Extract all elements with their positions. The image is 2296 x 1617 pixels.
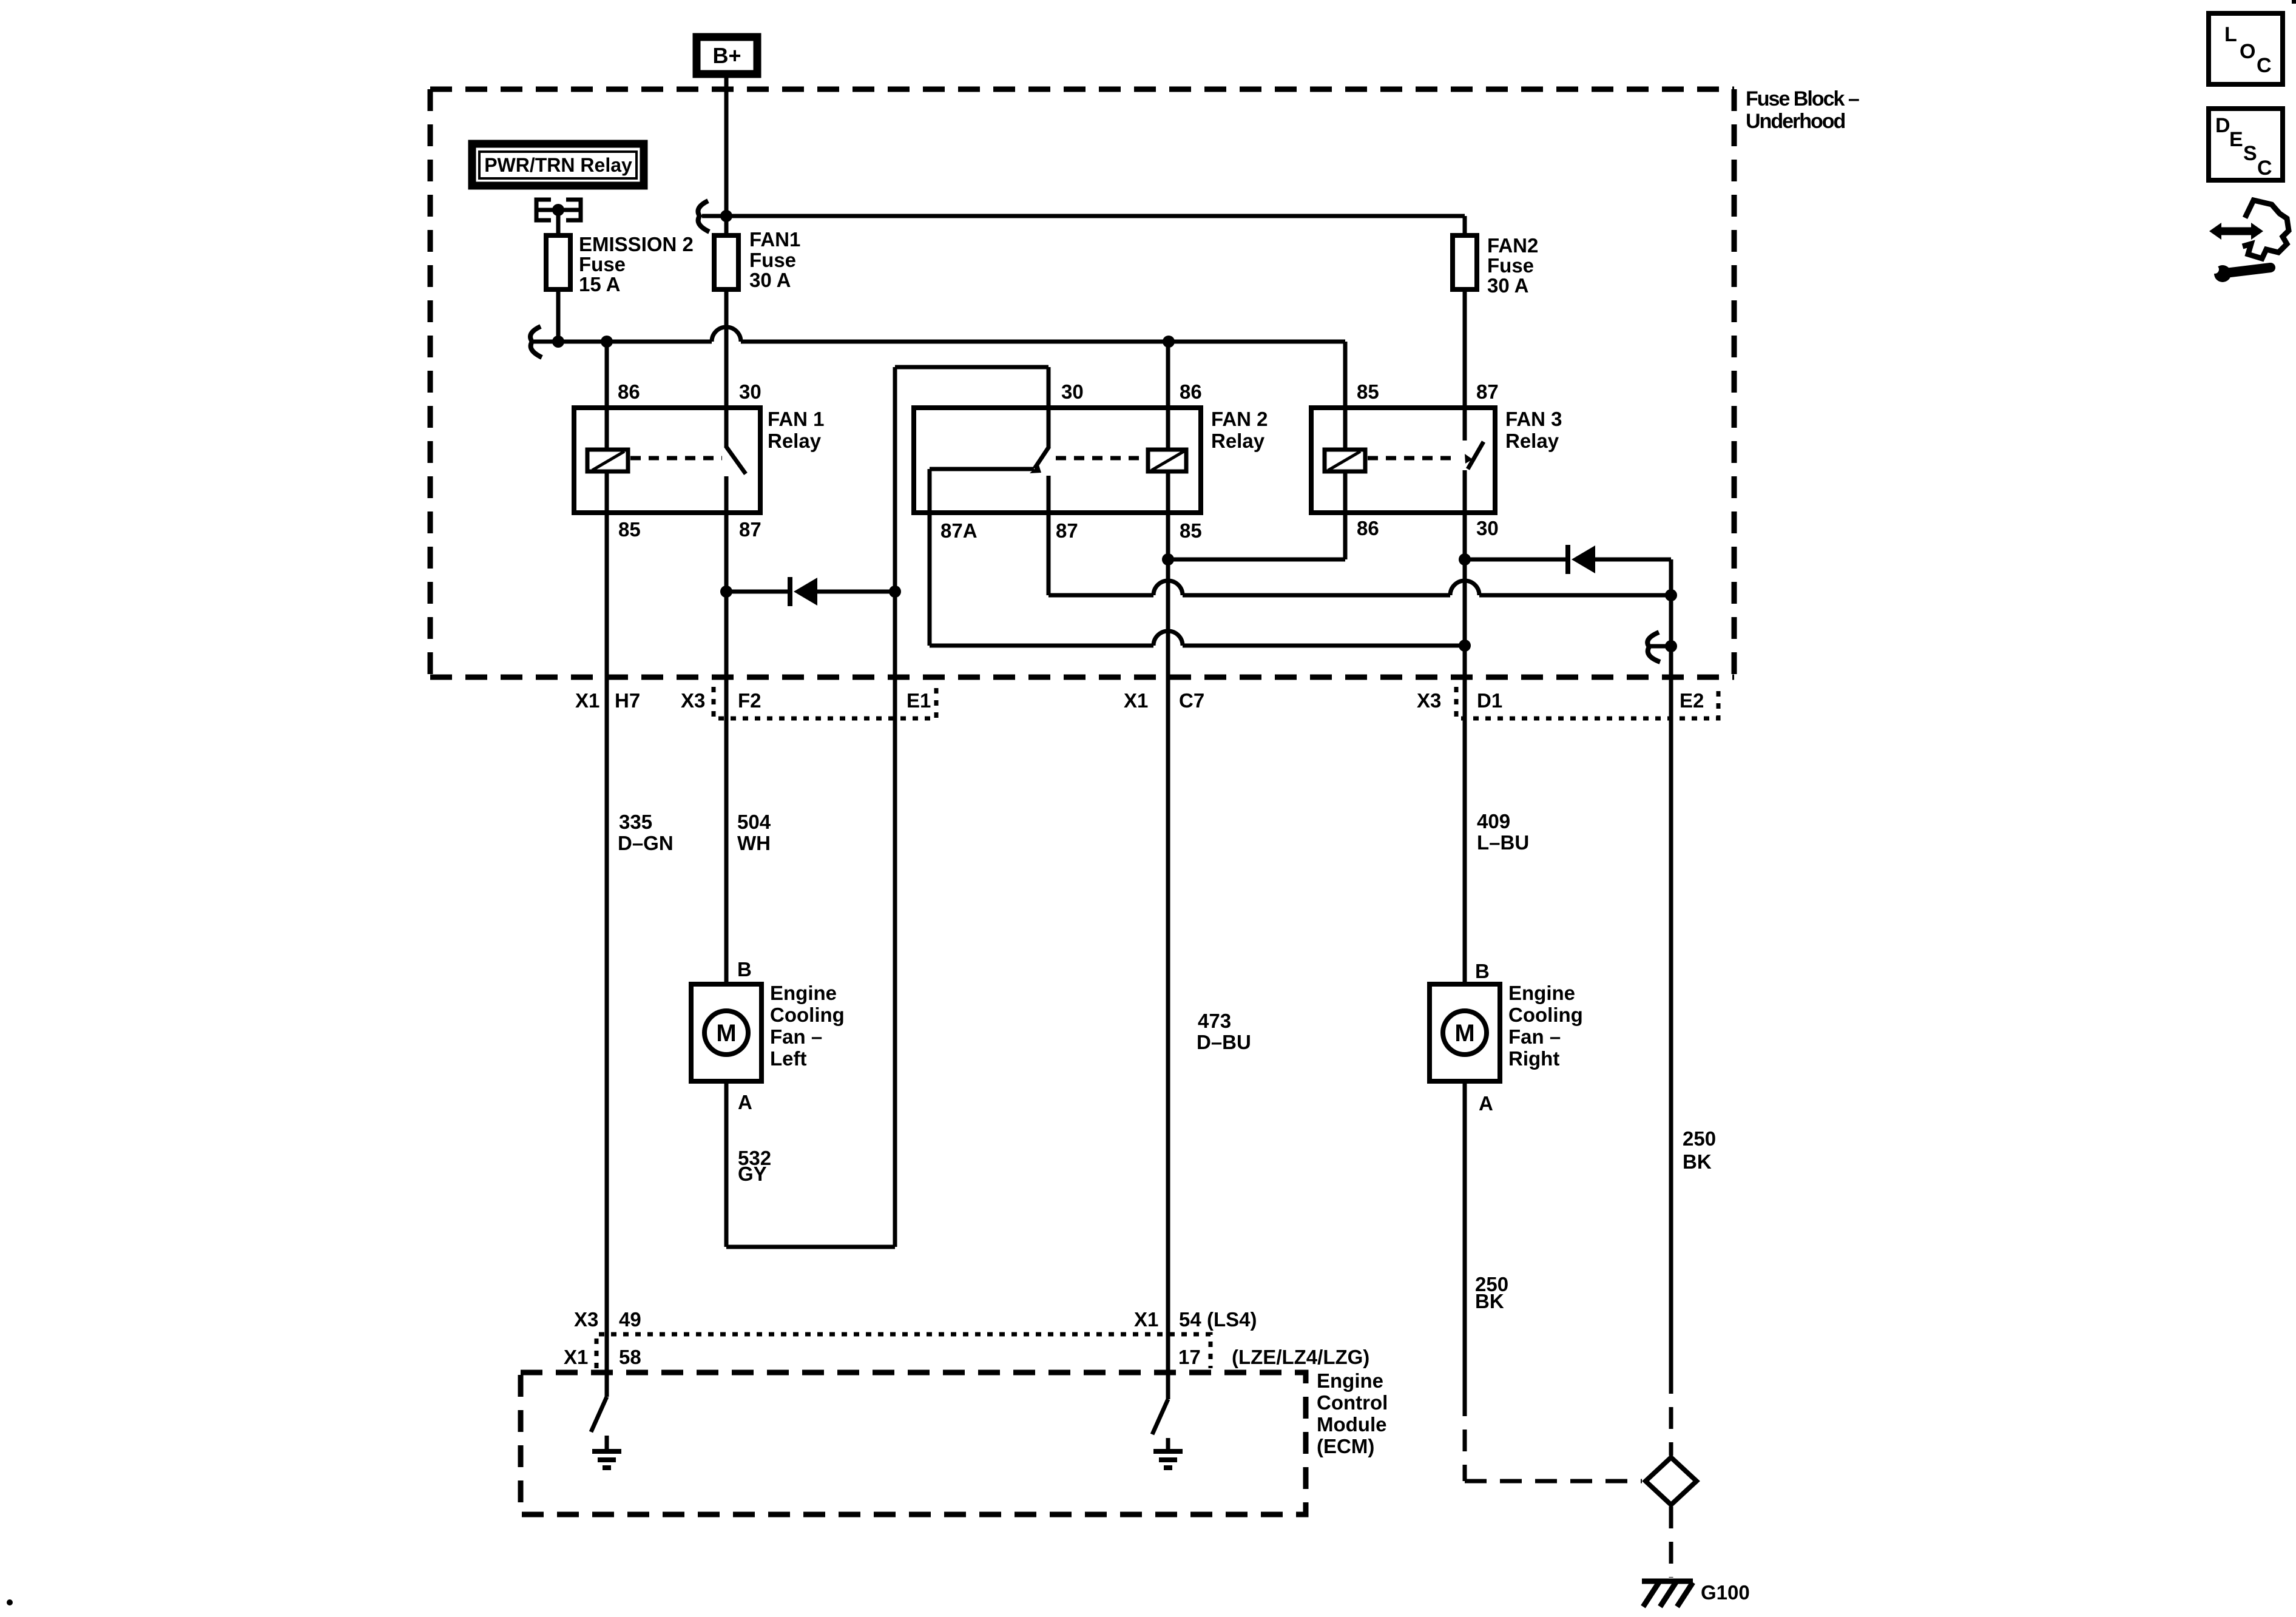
svg-text:D–GN: D–GN: [618, 832, 674, 854]
svg-text:86: 86: [1357, 517, 1379, 539]
svg-text:E1: E1: [907, 689, 931, 712]
DESC legend box: [2209, 109, 2283, 180]
diode between FAN3 30 wire and E2 wire: [1465, 545, 1671, 595]
svg-text:335: 335: [619, 811, 652, 833]
svg-text:M: M: [716, 1020, 736, 1047]
svg-text:X1: X1: [564, 1346, 588, 1368]
relay FAN 3 switch: [1465, 408, 1484, 513]
svg-text:85: 85: [618, 518, 641, 541]
svg-text:FAN 3: FAN 3: [1505, 408, 1562, 430]
svg-text:X3: X3: [574, 1308, 598, 1331]
svg-text:Fuse Block –: Fuse Block –: [1746, 87, 1859, 110]
svg-text:O: O: [2240, 40, 2255, 63]
B+ battery terminal: [697, 37, 757, 74]
wire left motor A to loop with label 532 GY: [726, 1081, 895, 1247]
svg-text:B: B: [737, 958, 752, 981]
svg-text:X1: X1: [1134, 1308, 1158, 1331]
svg-text:FAN 1: FAN 1: [768, 408, 825, 430]
node bus FAN2 relay 86 junction: [1163, 336, 1175, 348]
wire FAN2 relay 87A to FAN3 relay 30: [930, 513, 1465, 646]
fuse FAN2 30A: [1453, 234, 1538, 297]
svg-text:C7: C7: [1179, 689, 1204, 712]
svg-text:86: 86: [618, 380, 640, 403]
svg-text:Engine: Engine: [1508, 982, 1575, 1004]
svg-text:S: S: [2243, 142, 2257, 165]
node B+ junction to FAN2 fuse feed: [720, 210, 732, 222]
svg-text:Right: Right: [1508, 1047, 1559, 1070]
svg-text:(ECM): (ECM): [1317, 1435, 1374, 1457]
wire label 409 L-BU: [1477, 810, 1529, 854]
wire FAN2 fuse down to FAN 3 relay pin 87: [1463, 289, 1467, 408]
relay FAN 1: [574, 380, 825, 541]
svg-text:30: 30: [1061, 380, 1084, 403]
svg-text:BK: BK: [1683, 1150, 1712, 1173]
svg-text:X1: X1: [1124, 689, 1148, 712]
svg-text:30: 30: [739, 380, 761, 403]
svg-text:A: A: [738, 1091, 752, 1113]
wire FAN1 fuse down to FAN 1 relay pin 30: [724, 289, 729, 408]
LOC legend box: [2209, 13, 2283, 84]
svg-text:Module: Module: [1317, 1413, 1386, 1436]
ECM switch to ground right: [1152, 1399, 1183, 1468]
wire FAN1 relay 87 down to left fan motor: [724, 513, 729, 984]
wire connector to EMISSION 2 fuse: [556, 210, 561, 235]
node bus FAN1 relay 86 junction: [601, 336, 613, 348]
svg-text:Control: Control: [1317, 1391, 1388, 1414]
svg-text:87: 87: [1056, 519, 1078, 542]
svg-text:85: 85: [1357, 380, 1379, 403]
svg-text:L: L: [2224, 23, 2237, 46]
wire label 250 BK on E2 wire: [1683, 1127, 1716, 1173]
ECM connector rows X1 58 / 17 LZE: [564, 1346, 1369, 1368]
svg-text:Cooling: Cooling: [1508, 1004, 1583, 1026]
ECM connector rows X3 49 / X1 54 LS4: [574, 1308, 1257, 1331]
svg-text:30: 30: [1476, 517, 1499, 539]
wire E2 down with page hook: [1647, 595, 1677, 1372]
svg-text:Fuse: Fuse: [749, 249, 796, 271]
relay FAN 3 armature dashes: [1368, 454, 1473, 464]
svg-text:Fan –: Fan –: [770, 1025, 822, 1048]
svg-text:F2: F2: [738, 689, 761, 712]
svg-text:FAN1: FAN1: [749, 228, 800, 251]
wire FAN2 relay 85 to FAN3 relay 86: [1168, 513, 1345, 559]
wire FAN2 relay 85 to ECM pin 54/17: [1166, 513, 1170, 1399]
relay FAN 2 switch with 87A contact: [930, 408, 1049, 513]
ECM switch to ground left: [591, 1397, 621, 1468]
svg-text:Fuse: Fuse: [1487, 254, 1534, 277]
svg-text:Engine: Engine: [770, 982, 837, 1004]
wire FAN3 relay 30 down to right fan motor: [1463, 513, 1467, 984]
svg-text:504: 504: [737, 811, 771, 833]
svg-text:Relay: Relay: [1505, 430, 1559, 452]
relay FAN 3: [1311, 380, 1562, 539]
connector box F2 E1: [575, 687, 936, 718]
svg-text:E2: E2: [1680, 689, 1704, 712]
svg-text:X1: X1: [575, 689, 599, 712]
svg-text:A: A: [1479, 1092, 1493, 1115]
svg-text:54: 54: [1179, 1308, 1201, 1331]
svg-text:30 A: 30 A: [1487, 274, 1528, 297]
svg-text:Engine: Engine: [1317, 1369, 1383, 1392]
wire loop from left motor A up to FAN 2 relay pin 30: [895, 367, 1048, 1247]
svg-text:D: D: [2215, 114, 2230, 137]
wire bus to FAN 1 relay pin 86: [605, 342, 609, 408]
node diode junction on FAN1 87 wire: [720, 586, 732, 598]
relay FAN 2 armature dashes: [1056, 456, 1148, 461]
wire label 473 D-BU: [1197, 1010, 1251, 1053]
ground G100: [1642, 1581, 1750, 1607]
PWR/TRN Relay label box: [472, 144, 644, 186]
node 87A line to FAN3 30 junction: [1459, 640, 1471, 652]
svg-text:G100: G100: [1701, 1581, 1750, 1604]
in-line connector below PWR/TRN relay: [536, 200, 581, 220]
svg-text:Relay: Relay: [1211, 430, 1265, 452]
svg-text:WH: WH: [737, 832, 771, 854]
svg-text:86: 86: [1180, 380, 1202, 403]
svg-text:D1: D1: [1477, 689, 1502, 712]
relay FAN 2: [914, 380, 1268, 542]
svg-text:Underhood: Underhood: [1746, 110, 1845, 133]
svg-text:Left: Left: [770, 1047, 807, 1070]
svg-text:49: 49: [619, 1308, 641, 1331]
svg-text:PWR/TRN Relay: PWR/TRN Relay: [484, 154, 632, 176]
svg-text:Relay: Relay: [768, 430, 822, 452]
wire right motor A down with labels 250 BK: [1465, 1081, 1508, 1394]
svg-text:X3: X3: [1417, 689, 1441, 712]
svg-text:Fan –: Fan –: [1508, 1025, 1561, 1048]
svg-text:58: 58: [619, 1346, 641, 1368]
wire main bus from PWR/TRN with page hook: [530, 326, 1345, 408]
wire dashed right motor ground run: [1465, 1394, 1642, 1481]
svg-text:87: 87: [1476, 380, 1499, 403]
motor Engine Cooling Fan Right: [1430, 960, 1583, 1115]
fuse block border (Fuse Block - Underhood): [430, 87, 1859, 677]
svg-text:85: 85: [1180, 519, 1202, 542]
vehicle service icon: [2209, 200, 2289, 282]
wire B+ feed down to junction: [724, 78, 729, 235]
node bus EMISSION2 junction: [552, 336, 564, 348]
wire FAN2 relay 87 to E2: [1048, 513, 1671, 595]
node FAN2 85 to FAN3 86 junction: [1162, 553, 1174, 565]
svg-text:473: 473: [1198, 1010, 1231, 1032]
diode between FAN1 87 wire and FAN2 30 loop: [726, 577, 895, 606]
svg-text:409: 409: [1477, 810, 1510, 832]
svg-text:15 A: 15 A: [579, 273, 620, 295]
svg-text:C: C: [2257, 54, 2272, 77]
wire label 335 D-GN: [618, 811, 674, 854]
svg-text:X3: X3: [681, 689, 705, 712]
wire FAN1 relay 85 to ECM pin 49/58: [605, 513, 609, 1397]
node diode to loop junction: [889, 586, 901, 598]
wire feed to FAN2 fuse with page hook: [698, 201, 1465, 235]
svg-text:BK: BK: [1475, 1290, 1504, 1312]
relay FAN 1 armature dashes: [630, 456, 722, 461]
fuse FAN1 30A: [714, 228, 800, 291]
page corner tick: [2292, 0, 2296, 4]
wire dashed E2 ground run: [1669, 1372, 1673, 1578]
connector box D1 E2: [1124, 687, 1718, 718]
svg-text:M: M: [1454, 1020, 1474, 1047]
svg-text:87A: 87A: [940, 519, 977, 542]
relay FAN 2 coil: [1148, 408, 1186, 513]
node E2 wire junction: [1665, 589, 1677, 601]
splice diamond: [1646, 1457, 1697, 1505]
svg-text:E: E: [2229, 128, 2243, 151]
svg-text:D–BU: D–BU: [1197, 1031, 1251, 1053]
svg-text:250: 250: [1683, 1127, 1716, 1150]
relay FAN 1 coil: [587, 408, 628, 513]
svg-text:FAN 2: FAN 2: [1211, 408, 1268, 430]
svg-text:(LZE/LZ4/LZG): (LZE/LZ4/LZG): [1232, 1346, 1369, 1368]
relay FAN 3 coil: [1325, 408, 1365, 513]
node FAN3 30 diode junction: [1459, 553, 1471, 565]
svg-text:C: C: [2257, 157, 2272, 180]
wire bus to FAN 2 relay pin 86: [1166, 342, 1170, 408]
svg-text:Cooling: Cooling: [770, 1004, 845, 1026]
svg-text:H7: H7: [615, 689, 640, 712]
wire label 504 WH: [737, 811, 771, 854]
svg-text:(LS4): (LS4): [1207, 1308, 1257, 1331]
svg-text:Fuse: Fuse: [579, 253, 626, 275]
motor Engine Cooling Fan Left: [691, 958, 845, 1113]
svg-text:L–BU: L–BU: [1477, 831, 1529, 854]
svg-text:30 A: 30 A: [749, 269, 791, 291]
svg-text:B: B: [1475, 960, 1490, 982]
svg-text:17: 17: [1178, 1346, 1201, 1368]
svg-text:B+: B+: [712, 43, 741, 68]
wire EMISSION 2 fuse to bus: [556, 289, 561, 342]
ECM box Engine Control Module: [521, 1369, 1388, 1514]
fuse EMISSION 2 15A: [546, 233, 694, 295]
svg-text:EMISSION 2: EMISSION 2: [579, 233, 694, 255]
svg-text:FAN2: FAN2: [1487, 234, 1538, 257]
relay FAN 1 switch: [726, 408, 746, 513]
svg-text:GY: GY: [738, 1163, 767, 1185]
page corner dot bottom left: [7, 1599, 13, 1605]
ECM connector dotted row: [596, 1334, 1210, 1368]
svg-text:87: 87: [739, 518, 761, 541]
